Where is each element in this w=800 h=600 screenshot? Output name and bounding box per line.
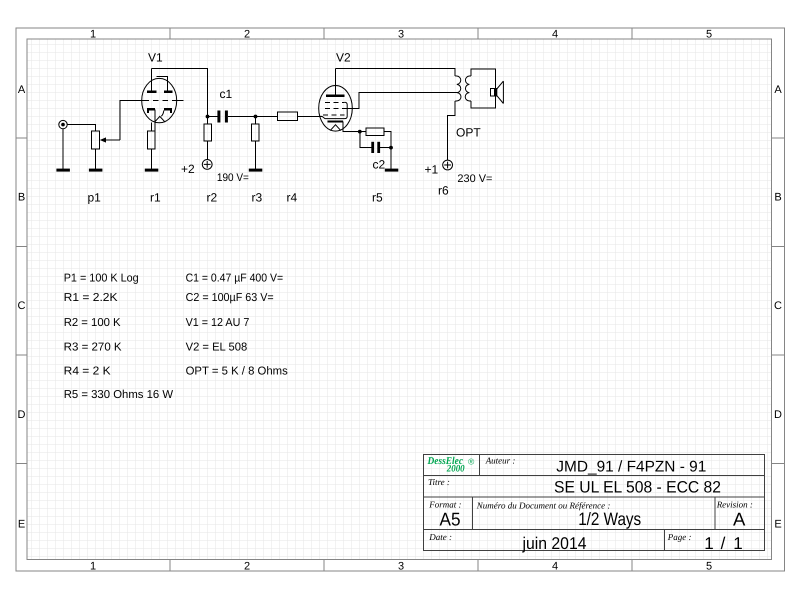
ruler letters right — [774, 84, 782, 531]
resistor R4 — [277, 112, 297, 120]
svg-text:B: B — [774, 192, 781, 204]
wire: r3 bottom lead — [255, 141, 257, 169]
wire: c2 left leg — [360, 132, 372, 148]
ruler ticks right — [771, 138, 784, 464]
svg-text:C: C — [18, 300, 26, 312]
svg-text:SE UL EL 508 - ECC 82: SE UL EL 508 - ECC 82 — [554, 479, 721, 497]
svg-text:P1 = 100 K Log: P1 = 100 K Log — [64, 272, 139, 284]
svg-text:R1 = 2.2K: R1 = 2.2K — [64, 292, 118, 304]
svg-text:r5: r5 — [372, 191, 383, 205]
capacitor C1 — [217, 111, 220, 123]
svg-text:2000: 2000 — [446, 464, 465, 475]
ruler ticks top — [170, 28, 632, 39]
wire: jack ground stem — [62, 129, 64, 169]
svg-text:+2: +2 — [181, 162, 195, 176]
svg-text:OPT = 5 K / 8 Ohms: OPT = 5 K / 8 Ohms — [186, 365, 288, 377]
resistor R5 — [366, 128, 384, 136]
svg-text:juin 2014: juin 2014 — [522, 534, 587, 553]
ruler numbers bottom — [90, 561, 712, 573]
svg-text:A: A — [18, 84, 26, 96]
svg-text:C2 = 100µF 63 V=: C2 = 100µF 63 V= — [186, 292, 274, 304]
title block values — [440, 458, 747, 553]
component values list — [64, 272, 288, 401]
node C (cathode junction) — [358, 130, 362, 134]
wire: jack to pot top — [67, 125, 95, 131]
svg-text:Titre :: Titre : — [428, 477, 450, 487]
ground (jack) — [56, 169, 70, 172]
wire: V1 second cathode lead — [154, 109, 156, 144]
wire: c1 left — [208, 116, 218, 118]
ground (c2/r5) — [385, 169, 399, 172]
svg-text:r3: r3 — [252, 191, 263, 205]
node D (c2 right junction) — [389, 146, 393, 150]
wire: r4 to V2 grid — [298, 115, 323, 117]
svg-text:1/2 Ways: 1/2 Ways — [578, 509, 641, 529]
wire: r5 right down to c2 — [384, 132, 391, 169]
ground (r3) — [249, 169, 262, 172]
svg-text:Auteur :: Auteur : — [485, 456, 516, 466]
wire: pot bottom — [95, 149, 97, 169]
svg-text:c1: c1 — [220, 87, 233, 101]
ruler ticks left — [16, 138, 27, 464]
transformer OPT secondary — [465, 69, 495, 108]
svg-text:B: B — [18, 192, 25, 204]
svg-text:r4: r4 — [287, 191, 298, 205]
svg-text:D: D — [18, 409, 26, 421]
svg-text:JMD_91 / F4PZN - 91: JMD_91 / F4PZN - 91 — [556, 458, 706, 475]
svg-text:®: ® — [468, 456, 475, 466]
svg-text:p1: p1 — [88, 191, 102, 205]
svg-text:2: 2 — [244, 29, 250, 41]
svg-text:4: 4 — [552, 29, 558, 41]
wire: V2 cathode to r5 junction — [343, 122, 366, 132]
svg-text:E: E — [18, 519, 25, 531]
svg-text:+1: +1 — [425, 163, 439, 177]
svg-text:A5: A5 — [440, 509, 461, 530]
wire: r3 top lead — [255, 117, 257, 124]
wire: V2 screen to transformer tap — [346, 92, 457, 108]
wire: V2 anode top rail to transformer — [335, 68, 455, 76]
wire: c1 right to r3 junction — [228, 116, 256, 118]
ground (pot) — [89, 169, 103, 172]
svg-text:R5 = 330 Ohms 16 W: R5 = 330 Ohms 16 W — [64, 389, 174, 401]
svg-text:r6: r6 — [438, 184, 449, 198]
svg-text:3: 3 — [398, 29, 404, 41]
wire: transformer primary bottom to +1 — [448, 101, 456, 160]
node A (V1 anode junction at c1) — [206, 115, 210, 119]
svg-text:r2: r2 — [207, 191, 218, 205]
svg-text:E: E — [774, 519, 781, 531]
svg-text:5: 5 — [706, 561, 712, 573]
supply +1 symbol — [443, 160, 453, 170]
svg-text:R4 = 2 K: R4 = 2 K — [64, 365, 111, 377]
wire: c2 right plate to r5 drop — [380, 146, 391, 148]
svg-text:R2 = 100 K: R2 = 100 K — [64, 317, 121, 329]
svg-text:A: A — [733, 509, 746, 530]
svg-text:A: A — [774, 84, 782, 96]
svg-text:Date :: Date : — [428, 532, 452, 542]
capacitor C2 — [371, 142, 374, 153]
ruler ticks bottom — [170, 559, 632, 571]
resistor R1 — [148, 131, 155, 149]
wire: junction to r4 — [256, 116, 278, 118]
node B (r3 junction) — [254, 115, 258, 119]
supply +2 symbol — [202, 160, 212, 170]
tube V1 (12AU7 double triode) — [120, 68, 184, 122]
svg-text:c2: c2 — [373, 158, 386, 172]
potentiometer P1 — [92, 131, 100, 149]
wire: r2 top lead — [207, 117, 209, 124]
svg-text:V2 = EL 508: V2 = EL 508 — [186, 341, 248, 353]
ruler letters left — [18, 84, 26, 531]
svg-text:Page :: Page : — [667, 532, 692, 542]
ruler numbers top — [90, 29, 712, 41]
wire: r1 top lead — [150, 122, 152, 131]
wire: r2 bottom lead — [207, 141, 209, 160]
svg-text:1: 1 — [90, 29, 96, 41]
svg-text:2: 2 — [244, 561, 250, 573]
speaker — [491, 89, 497, 97]
transformer OPT primary — [455, 76, 461, 101]
svg-text:1: 1 — [704, 534, 713, 553]
svg-text:V1 = 12 AU 7: V1 = 12 AU 7 — [186, 317, 250, 329]
wire: pot wiper to V1 grid — [120, 101, 143, 140]
input jack J — [59, 120, 67, 128]
svg-text:230 V=: 230 V= — [457, 173, 492, 185]
svg-text:V2: V2 — [336, 51, 351, 65]
svg-text:OPT: OPT — [456, 126, 481, 140]
svg-text:3: 3 — [398, 561, 404, 573]
svg-text:1: 1 — [90, 561, 96, 573]
resistor R2 — [204, 124, 212, 141]
svg-text:/: / — [721, 534, 726, 553]
svg-text:5: 5 — [706, 29, 712, 41]
resistor R3 — [252, 124, 260, 141]
svg-text:R3 = 270 K: R3 = 270 K — [64, 341, 122, 353]
svg-text:D: D — [774, 409, 782, 421]
svg-text:r1: r1 — [150, 191, 161, 205]
svg-text:1: 1 — [733, 534, 742, 553]
svg-text:C1 = 0.47 µF 400 V=: C1 = 0.47 µF 400 V= — [186, 272, 284, 284]
svg-text:C: C — [774, 300, 782, 312]
svg-text:190 V=: 190 V= — [217, 172, 249, 184]
svg-text:4: 4 — [552, 561, 558, 573]
ground (r1) — [145, 169, 159, 172]
svg-text:V1: V1 — [148, 51, 163, 65]
wire: V1 anode top rail — [151, 68, 207, 116]
tube V2 (EL508 pentode) — [319, 68, 353, 131]
wire: r1 bottom lead — [150, 149, 152, 169]
